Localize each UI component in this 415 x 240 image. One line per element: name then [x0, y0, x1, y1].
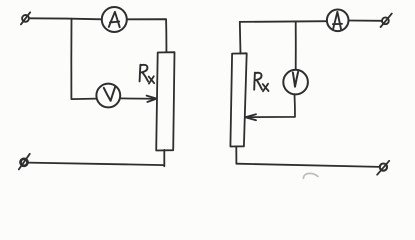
- wire voltmeter down-left to resistor with arrow (right): [245, 95, 295, 121]
- wire junction-to-voltmeter (vertical drop and run to V): [71, 19, 96, 99]
- ammeter A (left): [102, 7, 127, 32]
- wire ammeter to terminal (right-top): [349, 20, 382, 22]
- wire resistor bottom stub (right): [235, 146, 237, 163]
- wire bottom-left horizontal: [28, 163, 165, 166]
- wire top-left horizontal: [29, 18, 102, 19]
- label Rx (right): [254, 73, 268, 92]
- terminal right-bottom: [377, 161, 389, 175]
- voltmeter V (right): [283, 70, 308, 95]
- wire bottom horizontal to terminal (right): [236, 164, 379, 167]
- label Rx (left): [140, 65, 155, 84]
- terminal left-bottom: [19, 154, 30, 170]
- wire ammeter to top-right corner down to resistor: [127, 19, 167, 52]
- wire top horizontal to ammeter (right): [240, 20, 327, 23]
- ammeter A (right): [327, 9, 349, 31]
- voltmeter V (left): [96, 84, 120, 108]
- wire resistor bottom stub (left): [163, 150, 165, 166]
- terminal left-top: [21, 12, 30, 24]
- resistor Rx (left): [156, 52, 174, 150]
- resistor Rx (right): [230, 53, 246, 146]
- wire resistor top stub (right): [239, 22, 242, 54]
- faint caption mark (cut off at bottom): [303, 173, 318, 179]
- wire junction-to-voltmeter vertical (right): [295, 22, 297, 71]
- wire voltmeter to resistor with arrow (left): [120, 96, 157, 102]
- terminal right-top: [381, 14, 392, 27]
